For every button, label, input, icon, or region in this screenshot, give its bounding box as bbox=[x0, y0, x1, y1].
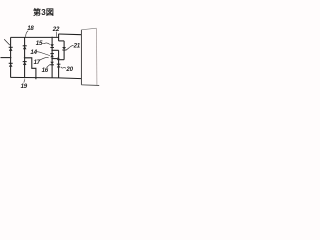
svg-text:20: 20 bbox=[65, 66, 73, 73]
wire upper rail segment bbox=[58, 34, 60, 41]
thyristor 21 bbox=[62, 41, 69, 60]
node dot branch2 bottom bbox=[24, 77, 26, 79]
wire tap2 bbox=[52, 58, 57, 60]
node dot jog bottom bbox=[35, 77, 37, 79]
diode 16 bbox=[50, 62, 54, 65]
wire right rail bbox=[58, 50, 60, 78]
wire bottom bus bbox=[11, 77, 82, 78]
wire tap1 to rail bbox=[52, 49, 59, 51]
node dot branch2 tap bbox=[24, 57, 26, 59]
diode D-b2-bottom bbox=[23, 62, 27, 65]
svg-text:21: 21 bbox=[73, 43, 81, 50]
wire bridge branch 1 vertical bbox=[10, 37, 12, 77]
diode D-b1-bottom bbox=[9, 63, 13, 66]
svg-text:第3図: 第3図 bbox=[33, 7, 54, 17]
diode on rail pointed by 20 bbox=[57, 64, 61, 67]
leader arrow slash at branch 1 top bbox=[4, 39, 10, 45]
label 20 with squiggle leader bbox=[61, 67, 66, 69]
diode 17 on tap2 bbox=[57, 57, 60, 60]
wire top bus bbox=[11, 36, 59, 38]
svg-text:19: 19 bbox=[21, 83, 28, 90]
wire stub rail to SCR bbox=[59, 59, 65, 61]
leader of 21 bbox=[69, 45, 73, 47]
node dot mid tap 2 bbox=[51, 58, 53, 60]
node dot top of middle column bbox=[51, 37, 53, 39]
svg-text:14: 14 bbox=[30, 49, 37, 56]
wire bridge branch 2 vertical bbox=[24, 37, 26, 77]
diode D-b1-top bbox=[9, 47, 13, 51]
diode D-b2-top bbox=[23, 46, 27, 50]
wire AC tap left bbox=[1, 57, 11, 59]
diode 15 bbox=[50, 44, 54, 47]
wire to SCR anode bbox=[59, 40, 65, 42]
svg-text:16: 16 bbox=[42, 67, 49, 74]
wire to load box top bbox=[59, 33, 82, 36]
svg-text:18: 18 bbox=[27, 25, 34, 32]
svg-text:22: 22 bbox=[52, 26, 60, 33]
diode 14 bbox=[50, 54, 54, 58]
load box 20 outline bbox=[81, 28, 99, 85]
wire middle column bbox=[51, 37, 53, 77]
node dot branch1 tap bbox=[10, 57, 12, 59]
node dot mid tap 1 bbox=[51, 50, 53, 52]
wire AC tap right with jog bbox=[25, 58, 36, 79]
